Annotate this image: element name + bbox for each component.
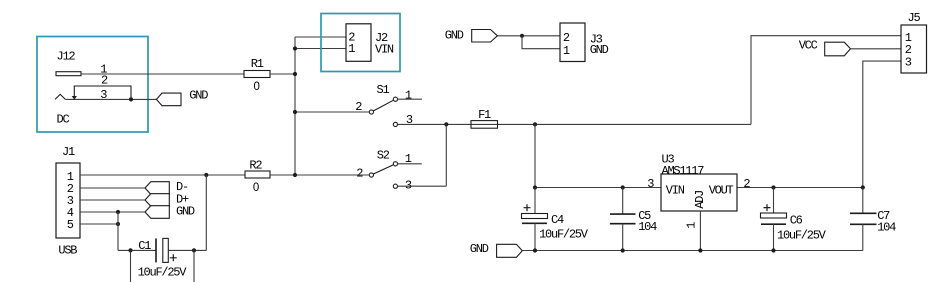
wire to J3 pin1 bbox=[522, 36, 560, 49]
svg-text:AMS1117: AMS1117 bbox=[662, 164, 705, 178]
highlight box around J12 bbox=[37, 37, 148, 133]
junction at J12 switch contact bbox=[129, 97, 133, 101]
svg-text:10uF/25V: 10uF/25V bbox=[777, 229, 827, 243]
junction rail/C6 bbox=[771, 185, 775, 189]
junction C1 right frame bbox=[192, 248, 196, 252]
wire C1 left lead bbox=[118, 249, 156, 251]
junction rail/C4 bottom bbox=[533, 248, 537, 252]
switch S1 bbox=[369, 97, 397, 126]
junction rail/C6 bottom bbox=[771, 248, 775, 252]
svg-text:VCC: VCC bbox=[799, 39, 818, 53]
svg-text:GND: GND bbox=[176, 205, 195, 219]
wire S1 pin1 stub bbox=[398, 98, 422, 100]
svg-text:0: 0 bbox=[254, 81, 260, 93]
wire bus to J2 pin2 bbox=[295, 36, 346, 38]
junction rail/C4 bbox=[533, 185, 537, 189]
wire J1 pin5 stub bbox=[80, 223, 118, 225]
wire S2 pin3 riser to S1 pin3 bbox=[445, 124, 447, 186]
junction bus/S1 bbox=[293, 110, 297, 114]
junction rail/C5 bottom bbox=[621, 248, 625, 252]
ground flag GND (bottom rail) bbox=[497, 244, 523, 257]
junction J1 pin1 / C1 branch bbox=[204, 173, 208, 177]
svg-text:104: 104 bbox=[877, 221, 896, 235]
net flag D+ bbox=[145, 194, 169, 207]
wire C1 riser to J1 pin1 net bbox=[205, 175, 207, 250]
svg-text:2: 2 bbox=[743, 177, 750, 191]
svg-text:1: 1 bbox=[563, 44, 570, 58]
svg-text:VIN: VIN bbox=[375, 43, 394, 57]
wire S2 pin3 stub bbox=[398, 185, 447, 187]
svg-text:3: 3 bbox=[647, 177, 654, 191]
junction bus/R1 bbox=[293, 72, 297, 76]
svg-text:ADJ: ADJ bbox=[693, 191, 707, 209]
wire J1 pin4 to GND flag bbox=[80, 211, 145, 213]
wire J1 ground drop to C1 bbox=[117, 212, 119, 250]
junction rail/U3 ADJ bbox=[698, 248, 702, 252]
svg-text:10uF/25V: 10uF/25V bbox=[539, 228, 589, 242]
connector J12 (DC power jack) bbox=[55, 72, 131, 100]
wire J1 pin2 to D- flag bbox=[80, 187, 145, 189]
junction C1 left frame bbox=[128, 248, 132, 252]
wire J5 pin3 down to output rail bbox=[863, 61, 901, 187]
connector J5 bbox=[901, 25, 927, 73]
capacitor C4 (polarized) bbox=[522, 188, 548, 251]
C6 plus sign bbox=[764, 204, 771, 211]
svg-text:5: 5 bbox=[67, 218, 74, 232]
svg-text:USB: USB bbox=[58, 243, 77, 257]
svg-text:J12: J12 bbox=[57, 50, 76, 64]
net flag D- bbox=[145, 182, 169, 195]
junction rail/C7/J5 bbox=[861, 185, 865, 189]
svg-text:1: 1 bbox=[405, 89, 412, 103]
svg-text:C4: C4 bbox=[551, 213, 564, 227]
svg-text:GND: GND bbox=[189, 89, 208, 103]
connector J3 bbox=[560, 23, 585, 62]
wire U3 ADJ to ground rail bbox=[699, 211, 701, 251]
capacitor C6 (polarized) bbox=[761, 188, 787, 251]
capacitor C5 bbox=[610, 188, 636, 251]
wire R2 to bus / S2 pin2 bbox=[270, 174, 369, 176]
capacitor C7 bbox=[850, 188, 877, 251]
svg-text:S1: S1 bbox=[377, 83, 390, 97]
ground flag GND (at J1) bbox=[145, 206, 169, 219]
svg-text:1: 1 bbox=[685, 222, 699, 229]
svg-text:C1: C1 bbox=[138, 239, 151, 253]
svg-text:R1: R1 bbox=[251, 57, 264, 71]
svg-text:VOUT: VOUT bbox=[709, 184, 734, 198]
connector J1 (USB) bbox=[56, 163, 80, 238]
wire bus to S1 pin2 bbox=[295, 111, 369, 113]
svg-text:104: 104 bbox=[638, 220, 657, 234]
resistor R2 bbox=[245, 171, 270, 178]
highlight box around J2 bbox=[321, 14, 400, 72]
junction bus/R2/S2 bbox=[293, 173, 297, 177]
junction rail/C5 bbox=[621, 185, 625, 189]
ground flag GND (at J12) bbox=[156, 93, 181, 106]
wire bus to J2 pin1 bbox=[295, 48, 346, 50]
input rail wire (left of U3) bbox=[535, 187, 661, 189]
ground rail wire bbox=[522, 250, 863, 252]
C1 plus sign bbox=[170, 254, 177, 261]
wire C1 right lead bbox=[169, 249, 207, 251]
wire GND flag to J3 pin2 bbox=[497, 35, 560, 37]
svg-text:3: 3 bbox=[905, 56, 912, 70]
svg-text:R2: R2 bbox=[249, 159, 262, 173]
wire J12 pin1 to R1 bbox=[81, 73, 244, 75]
svg-text:2: 2 bbox=[356, 166, 363, 180]
svg-text:GND: GND bbox=[470, 242, 489, 256]
svg-text:10uF/25V: 10uF/25V bbox=[138, 265, 188, 279]
junction S1/S2 pin3 bbox=[444, 122, 448, 126]
junction J1 pin5 bbox=[116, 222, 120, 226]
capacitor C1 (polarized) bbox=[156, 238, 168, 262]
svg-text:2: 2 bbox=[355, 100, 362, 114]
wire frame left edge bbox=[130, 250, 132, 282]
junction J1 pin4 bbox=[116, 210, 120, 214]
wire J12 pin3 to GND flag bbox=[65, 98, 156, 100]
ground flag GND (at J3) bbox=[472, 30, 498, 43]
wire S1 pin3 to fuse F1 bbox=[398, 123, 751, 125]
resistor R1 bbox=[244, 71, 270, 78]
svg-text:F1: F1 bbox=[478, 108, 491, 122]
wire J1 pin1 to R2 bbox=[80, 174, 245, 176]
junction F1 output / C4 branch bbox=[533, 122, 537, 126]
switch S2 bbox=[369, 162, 397, 189]
svg-text:0: 0 bbox=[253, 182, 259, 194]
junction bus/J2 pin1 bbox=[293, 46, 297, 50]
svg-text:J5: J5 bbox=[908, 11, 921, 25]
svg-text:C6: C6 bbox=[790, 213, 803, 227]
wire frame right edge bbox=[193, 250, 195, 282]
svg-text:S2: S2 bbox=[377, 148, 390, 162]
svg-text:VIN: VIN bbox=[666, 184, 685, 198]
wire VCC to J5 pin2 bbox=[851, 48, 902, 50]
svg-text:1: 1 bbox=[348, 42, 355, 56]
regulator U3 AMS1117 bbox=[661, 174, 737, 211]
svg-text:3: 3 bbox=[405, 178, 412, 192]
connector J2 bbox=[346, 24, 371, 62]
C4 plus sign bbox=[524, 204, 531, 211]
svg-text:DC: DC bbox=[57, 112, 70, 126]
svg-text:GND: GND bbox=[445, 28, 464, 42]
vertical bus wire bbox=[294, 37, 296, 175]
junction GND/J3 bbox=[520, 34, 524, 38]
wire F1 output down to input rail bbox=[534, 124, 536, 187]
svg-text:GND: GND bbox=[590, 43, 609, 57]
wire S2 pin1 stub bbox=[398, 163, 422, 165]
power flag VCC bbox=[825, 42, 851, 56]
svg-text:2: 2 bbox=[101, 74, 108, 88]
wire R1 to vertical bus bbox=[270, 73, 295, 75]
output rail wire (right of U3) bbox=[737, 187, 863, 189]
wire riser to J5 pin1 bbox=[751, 36, 901, 125]
svg-text:J1: J1 bbox=[62, 145, 75, 159]
wire J1 pin3 to D+ flag bbox=[80, 199, 145, 201]
fuse F1 bbox=[471, 121, 498, 129]
